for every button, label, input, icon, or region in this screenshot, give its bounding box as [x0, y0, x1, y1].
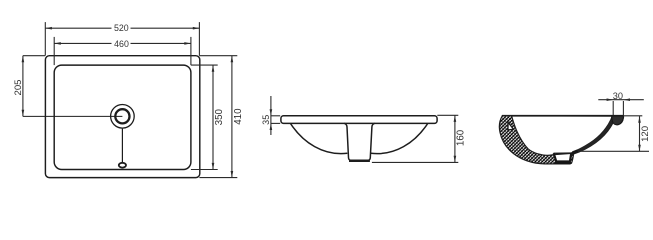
- dimension 410: [199, 56, 237, 178]
- svg-text:410: 410: [233, 108, 244, 125]
- svg-text:350: 350: [214, 108, 225, 125]
- svg-text:160: 160: [455, 129, 466, 146]
- overflow channel triangle notch: [508, 122, 513, 129]
- svg-text:120: 120: [640, 126, 651, 142]
- drain inner circle: [115, 109, 129, 123]
- outer rim rectangle: [45, 56, 199, 178]
- dimension 30: [598, 100, 644, 116]
- top line extension to 120 dim: [624, 115, 643, 117]
- dimension 350: [191, 65, 218, 169]
- svg-text:30: 30: [613, 91, 623, 101]
- dimension 120: [581, 116, 649, 151]
- drain outer circle: [111, 105, 135, 129]
- drain outlet bottom flange thick line: [555, 162, 571, 164]
- svg-text:460: 460: [114, 39, 129, 49]
- drain outlet thick outline (side view): [554, 153, 572, 161]
- drain cup: [344, 123, 375, 160]
- dimension 160: [372, 115, 458, 162]
- rim slab: [281, 116, 437, 124]
- svg-text:205: 205: [13, 79, 24, 95]
- drain cup bottom thick line: [349, 160, 370, 162]
- inner basin rectangle: [54, 65, 191, 169]
- dimension 205: [23, 56, 45, 117]
- thick joint where right wall band meets drain: [572, 151, 578, 154]
- drain centerline horizontal: [23, 115, 123, 117]
- section body (hatched wall): [499, 116, 623, 164]
- svg-text:35: 35: [261, 115, 271, 125]
- drain-to-overflow vertical line: [121, 129, 123, 163]
- svg-text:520: 520: [114, 23, 129, 33]
- dimension 35: [271, 96, 280, 135]
- right wall band dark overlay: [573, 121, 613, 153]
- bowl curve right: [371, 124, 428, 154]
- bowl curve left: [291, 124, 348, 154]
- dimension 460: [54, 37, 191, 65]
- rim edge tip blob (section cut): [612, 116, 624, 125]
- dimension 520: [45, 22, 199, 56]
- overflow oval: [119, 163, 126, 168]
